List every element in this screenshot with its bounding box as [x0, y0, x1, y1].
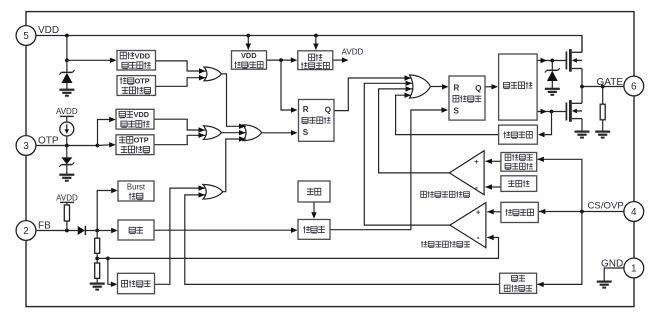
- pin 6 GATE: [597, 76, 644, 96]
- ground OTP diode: [59, 175, 74, 181]
- svg-text:S: S: [303, 128, 309, 137]
- svg-text:-: -: [477, 232, 480, 242]
- wire FB diode to junction: [86, 230, 98, 232]
- wire logic latch Q to gate driver: [485, 84, 498, 89]
- wire divider mid node: [95, 253, 110, 263]
- label AVDD fb pullup: [56, 193, 78, 202]
- wire external OTP output to OR2: [154, 133, 206, 145]
- wire VDD to built-in VDD OVP input: [67, 58, 117, 63]
- wire OTP to external OTP input: [98, 142, 116, 147]
- label peak current limit comparator: [421, 191, 470, 198]
- wire CS/OVP pin line to slope compensation: [539, 209, 624, 214]
- resistor FB pull-up: [64, 202, 69, 230]
- svg-text:Burst: Burst: [127, 182, 146, 191]
- wire low gate node to blanking input: [538, 112, 552, 138]
- svg-text:2: 2: [23, 226, 29, 237]
- OR gate U2 external protections: [204, 126, 222, 139]
- block built-in OTP: [117, 76, 156, 96]
- zener diode VDD clamp: [59, 70, 74, 89]
- svg-text:+: +: [474, 157, 479, 166]
- resistor FB divider lower: [95, 263, 100, 278]
- block peak current limit compensation: [501, 153, 537, 172]
- wire divider bottom to ground: [96, 278, 98, 283]
- resistor FB divider upper: [95, 238, 100, 253]
- block output OVP: [500, 273, 537, 293]
- block soft start: [501, 176, 537, 192]
- wire FB divider sense line to PWM comparator minus: [97, 235, 498, 259]
- pin 5 VDD: [16, 25, 59, 45]
- block Burst mode: [118, 181, 154, 201]
- wire output OVP return line to OR gate: [185, 192, 500, 284]
- wire GND pin to ground: [604, 268, 624, 282]
- pin 2 FB: [16, 221, 51, 241]
- wire OTP temp diode branch: [66, 146, 68, 158]
- wire PWM comparator output to logic OR input 2: [364, 81, 450, 226]
- svg-text:GND: GND: [601, 258, 623, 269]
- svg-text:1: 1: [631, 264, 637, 275]
- svg-text:CS/OVP: CS/OVP: [588, 201, 624, 212]
- comparator peak current limit: [449, 151, 484, 195]
- svg-text:VDD: VDD: [135, 51, 150, 60]
- svg-text:OTP: OTP: [135, 77, 150, 86]
- transistor Q1 high-side MOSFET: [566, 36, 582, 87]
- svg-text:VDD: VDD: [38, 25, 59, 36]
- wire slope comp to PWM comparator plus: [487, 209, 501, 214]
- ground FB divider: [90, 284, 105, 290]
- wire VDD rail branch down to VDD on-off block: [246, 36, 251, 51]
- wire overload protection output to OR gate: [155, 185, 206, 284]
- svg-text:R: R: [454, 83, 460, 92]
- wire internal supply AVDD output: [333, 57, 349, 62]
- label AVDD internal supply output: [342, 48, 364, 57]
- wire FB junction to freq-reduce input: [97, 228, 118, 233]
- wire CS node up to peak current compensation: [537, 157, 582, 212]
- wire gate driver upper output to high-side MOSFET gate: [537, 58, 566, 63]
- wire OR2 output to restart OR gate middle input: [222, 130, 247, 135]
- wire VDD on-off down to R of restart latch: [281, 60, 298, 113]
- diode FB series: [78, 226, 86, 235]
- wire gate driver lower output to low-side MOSFET gate: [537, 109, 566, 114]
- svg-text:OTP: OTP: [38, 136, 59, 147]
- wire soft start to comparator minus: [485, 184, 501, 189]
- block frequency jitter: [298, 181, 330, 202]
- wire external VDD OVP output to OR2: [154, 119, 206, 133]
- wire OTP to external VDP OVP input: [98, 117, 116, 146]
- wire VDD zener branch: [65, 36, 69, 73]
- wire FB pin line: [36, 229, 99, 233]
- svg-text:-: -: [475, 183, 478, 193]
- block leading edge blanking: [499, 125, 538, 144]
- wire OTP pin line: [36, 144, 100, 148]
- wire GATE resistor tap: [602, 87, 604, 105]
- block gate driver: [499, 54, 537, 120]
- block overload protection: [118, 273, 155, 293]
- wire FB junction down to divider: [96, 231, 98, 239]
- wire jitter to oscillator: [311, 202, 316, 219]
- svg-text:AVDD: AVDD: [56, 107, 78, 116]
- block internal working voltage: [298, 51, 333, 70]
- block logic control RS latch: [449, 76, 485, 120]
- OR gate U1 built-in protections: [204, 67, 222, 81]
- wire gate zener branch: [551, 61, 553, 71]
- wire freq-reduce output to oscillator input: [154, 228, 298, 233]
- OR gate U5 logic reset combine: [410, 75, 431, 98]
- wire peak compensation to comparator plus: [485, 159, 501, 164]
- ground GND pin: [597, 282, 612, 288]
- wire VDD rail branch down to internal supply block: [313, 36, 318, 51]
- svg-text:FB: FB: [38, 221, 51, 232]
- svg-text:5: 5: [23, 31, 29, 42]
- svg-text:+: +: [476, 208, 481, 217]
- svg-text:Q: Q: [475, 84, 481, 93]
- OR gate U3 restart combine: [243, 125, 262, 141]
- wire restart OR output to S input of restart latch: [262, 130, 298, 135]
- ground GATE resistor: [595, 132, 610, 138]
- svg-text:3: 3: [23, 141, 29, 152]
- svg-text:R: R: [303, 105, 309, 114]
- wire OR gate to restart OR gate lower input: [223, 136, 246, 191]
- wire OR1 output down to restart OR gate top input: [222, 74, 247, 129]
- wire FB junction up to Burst input: [97, 188, 118, 231]
- block VDD on-off: [232, 51, 267, 70]
- pin 4 CS/OVP: [588, 201, 644, 222]
- svg-text:AVDD: AVDD: [342, 48, 364, 57]
- wire GATE node to pin 6: [580, 85, 624, 89]
- block slope compensation: [501, 202, 538, 222]
- wire blanking output to logic OR input 4: [396, 93, 499, 135]
- wire divider node down to overload input: [108, 258, 118, 287]
- svg-text:OTP: OTP: [134, 136, 149, 145]
- wire VDD on-off output to internal supply: [266, 57, 297, 62]
- svg-text:AVDD: AVDD: [56, 193, 78, 202]
- block oscillator: [298, 220, 330, 240]
- block restart control RS latch: [299, 100, 335, 142]
- wire restart latch Q to logic OR input 1: [334, 75, 411, 110]
- ground low-side source: [575, 132, 590, 138]
- wire oscillator output to S of logic latch: [330, 107, 448, 229]
- resistor GATE pulldown: [600, 104, 605, 120]
- svg-text:VDD: VDD: [241, 51, 257, 60]
- ground VDD zener: [59, 90, 74, 96]
- ground gate zener: [545, 89, 560, 95]
- pin 3 OTP: [16, 136, 59, 156]
- wire CS node down to output OVP input: [537, 212, 582, 288]
- zener diode gate clamp: [545, 68, 560, 89]
- block external VDD OVP: [116, 109, 154, 129]
- transistor Q2 low-side MOSFET: [566, 87, 582, 132]
- block built-in VDD OVP: [117, 51, 156, 71]
- comparator PWM: [450, 203, 486, 248]
- svg-text:GATE: GATE: [597, 77, 624, 88]
- wire peak-limit comparator output to logic OR input 3: [379, 86, 450, 173]
- wire built-in VDD OVP output to OR1: [156, 61, 207, 74]
- current source OTP bias: [60, 116, 74, 145]
- label AVDD otp source: [56, 107, 78, 116]
- svg-text:VDD: VDD: [134, 110, 149, 119]
- svg-text:6: 6: [631, 82, 637, 93]
- pin 1 GND: [601, 258, 644, 278]
- block external OTP: [116, 135, 154, 155]
- wire VDD rail from pin5 to upper MOSFET drain: [36, 34, 582, 53]
- svg-text:Q: Q: [325, 106, 331, 115]
- wire built-in OTP output to OR1: [156, 75, 207, 86]
- svg-text:S: S: [454, 106, 460, 115]
- svg-text:4: 4: [631, 207, 637, 218]
- OR gate U4 fault combine: [203, 185, 223, 200]
- block frequency reduction: [118, 220, 154, 240]
- label PWM comparator: [421, 241, 470, 248]
- diode OTP sense: [59, 157, 74, 174]
- wire logic OR output to R of logic latch: [430, 84, 448, 89]
- wire GATE resistor to ground: [602, 120, 604, 132]
